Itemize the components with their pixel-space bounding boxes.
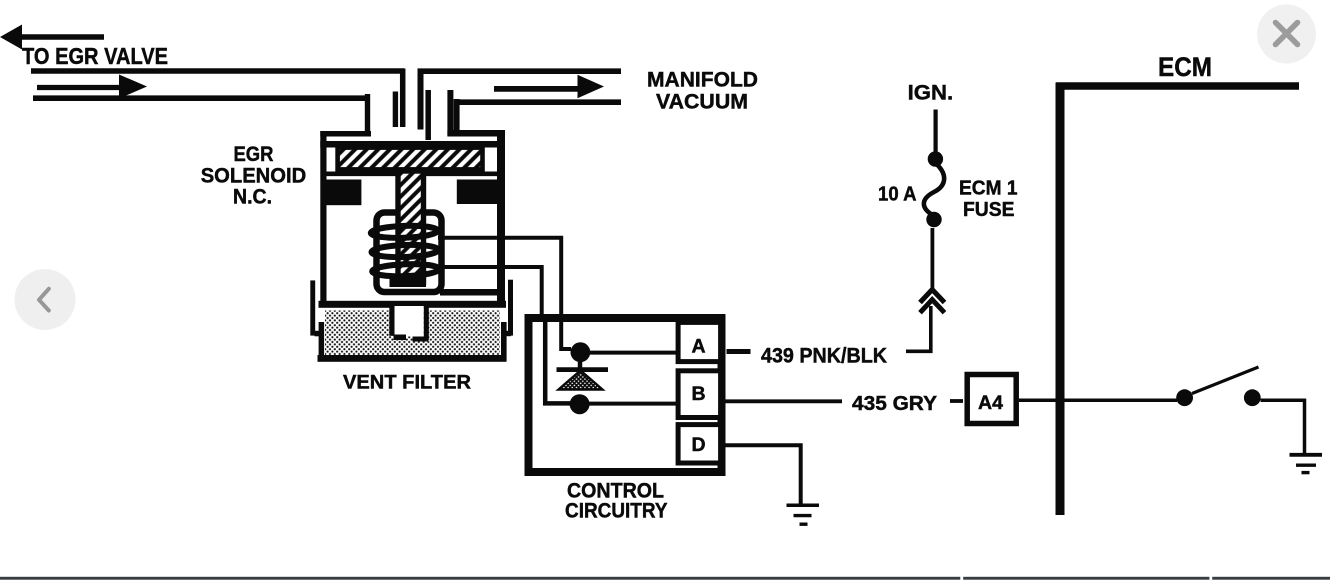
solenoid body bottom — [319, 301, 507, 308]
solenoid armature plate (hatched) — [338, 148, 483, 170]
wire manifold duct top line — [418, 68, 622, 74]
svg-text:439 PNK/BLK: 439 PNK/BLK — [761, 345, 887, 368]
flow arrow right (manifold duct) — [494, 75, 604, 98]
wire manifold duct bottom line — [457, 99, 622, 105]
svg-text:D: D — [691, 434, 705, 456]
contact dot lower — [570, 394, 590, 414]
wire upper duct top line — [31, 68, 404, 74]
wire left port inner wall — [393, 92, 398, 128]
valve symbol bar — [557, 367, 609, 372]
terminal B box — [678, 371, 721, 418]
contact dot upper — [571, 342, 591, 362]
wire upper contact to terminal A — [589, 351, 678, 355]
solenoid plate bottom flange line — [326, 172, 497, 177]
wire center vent channel right wall — [418, 69, 424, 130]
connector chevrons — [920, 290, 945, 303]
wire 439 to connector — [906, 306, 931, 351]
svg-text:IGN.: IGN. — [908, 80, 954, 104]
coil housing — [377, 213, 442, 293]
vent filter media (stippled) — [325, 311, 500, 357]
switch contact dot left — [1176, 389, 1193, 406]
solenoid body left wall — [320, 131, 326, 306]
wire A4 into ECM — [1019, 399, 1177, 403]
close button — [1257, 5, 1316, 64]
wire stub from terminal A — [727, 349, 751, 354]
wire terminal D to ground — [724, 445, 801, 505]
wire upper duct bottom line — [33, 95, 367, 101]
wire inside box right (to upper contact) — [561, 318, 571, 349]
solenoid right flange shelf — [447, 130, 503, 137]
ground (ECM side) — [1290, 455, 1323, 473]
svg-text:EGR: EGR — [234, 143, 274, 166]
svg-text:CIRCUITRY: CIRCUITRY — [565, 500, 668, 523]
svg-text:435 GRY: 435 GRY — [852, 392, 937, 415]
coil housing bottom shelf to wall — [440, 289, 503, 296]
ECM boundary horizontal — [1056, 82, 1299, 90]
wire manifold duct corner down — [454, 99, 460, 135]
solenoid body top band — [320, 141, 503, 148]
control circuitry box — [529, 318, 722, 472]
svg-text:ECM: ECM — [1158, 52, 1212, 82]
coil winding — [371, 225, 440, 278]
wire right port right wall — [447, 90, 453, 136]
wire inside box left (to lower contact) — [545, 318, 570, 403]
svg-text:N.C.: N.C. — [233, 186, 272, 209]
wire right port left wall — [425, 90, 431, 140]
switch blade — [1192, 367, 1259, 394]
svg-text:A: A — [691, 336, 705, 358]
svg-text:FUSE: FUSE — [963, 198, 1015, 221]
svg-text:VENT FILTER: VENT FILTER — [343, 372, 471, 394]
wire center vent channel left wall — [400, 69, 406, 128]
wire lower contact to terminal B — [588, 402, 678, 406]
terminal D box — [678, 425, 721, 463]
fuse squiggle — [924, 164, 944, 215]
vent passage left leg — [389, 306, 394, 336]
svg-text:TO EGR VALVE: TO EGR VALVE — [22, 43, 168, 69]
fuse upper dot — [928, 151, 943, 166]
wire 435 to A4 — [950, 399, 963, 403]
wire left duct corner down — [365, 94, 370, 134]
svg-text:A4: A4 — [978, 392, 1003, 414]
svg-text:SOLENOID: SOLENOID — [201, 164, 307, 187]
wire coil lead lower — [438, 267, 542, 320]
solenoid pole piece left (black block) — [321, 180, 361, 206]
svg-text:B: B — [691, 383, 705, 405]
solenoid plunger stem (hatched) — [398, 171, 424, 282]
bottom divider — [0, 577, 1330, 580]
solenoid pole piece right (black block) — [457, 180, 505, 205]
vent passage right leg — [424, 306, 429, 341]
svg-text:MANIFOLD: MANIFOLD — [647, 69, 758, 92]
svg-text:10 A: 10 A — [878, 182, 917, 205]
terminal A box — [678, 322, 721, 361]
ground (terminal D) — [787, 505, 820, 524]
back button — [15, 269, 76, 330]
fuse lower dot — [926, 212, 941, 227]
connector A4 box — [967, 375, 1016, 424]
wire coil lead upper — [438, 238, 561, 320]
arrow to EGR valve — [0, 25, 104, 50]
vent filter left ear — [310, 280, 315, 335]
valve symbol triangle (dotted fill) — [559, 371, 603, 390]
svg-text:VACUUM: VACUUM — [656, 91, 748, 114]
solenoid plunger foot — [390, 276, 427, 287]
vent filter tray right wall — [501, 322, 507, 361]
valve symbol stem — [578, 360, 583, 368]
vent passage notch — [395, 306, 424, 337]
solenoid body right wall — [497, 130, 505, 306]
vent filter tray left wall — [319, 322, 325, 361]
wire terminal B out — [724, 399, 842, 403]
switch contact dot right — [1244, 389, 1261, 406]
vent filter right ear — [508, 280, 513, 336]
solenoid left flange shelf — [320, 131, 371, 137]
wire switch to ground — [1261, 400, 1305, 453]
flow arrow right (left duct) — [37, 75, 147, 99]
vent filter tray bottom — [318, 355, 507, 362]
ECM boundary vertical — [1056, 83, 1065, 516]
svg-text:ECM 1: ECM 1 — [959, 176, 1018, 199]
wire IGN to fuse — [933, 110, 937, 153]
wire fuse to connector — [931, 228, 935, 289]
